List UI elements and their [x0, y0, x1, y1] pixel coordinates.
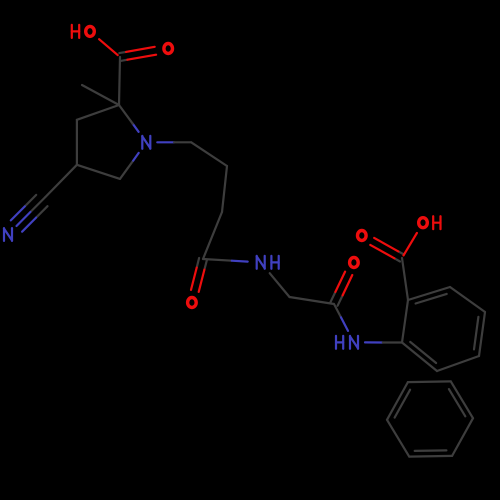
- bond C2-C3 (pyrrolidine): [77, 105, 119, 120]
- double bond C=O amide 2: [330, 272, 352, 306]
- bond C4-nitrile carbon: [45, 165, 77, 197]
- benzene inner double-bond line 2: [474, 317, 478, 350]
- bond C2-carboxyl carbon: [119, 57, 120, 105]
- bond C-OH carboxylic acid 1: [99, 39, 118, 55]
- label O amide 1: [188, 298, 197, 308]
- bond N1-CH2 chain: [157, 141, 191, 143]
- bond NH-CH2 glycine: [270, 273, 290, 297]
- benzene component inner line 2: [415, 449, 447, 452]
- benzene ring edge 2: [408, 287, 450, 300]
- label N nitrile: [4, 228, 12, 241]
- bond CH2-C amide 2: [290, 297, 335, 304]
- benzene inner double-bond line 1: [416, 294, 447, 304]
- double bond C=O amide 1: [191, 258, 207, 292]
- benzene ring edge 3: [450, 287, 485, 312]
- double bond C=O carboxylic acid 1: [119, 47, 156, 61]
- bond chain: [222, 166, 227, 212]
- bond C4-C5 (pyrrolidine): [77, 165, 120, 179]
- benzene ring edge 4: [479, 312, 485, 356]
- bond N-phenyl: [365, 341, 402, 343]
- label O carbonyl acid 1: [164, 44, 173, 54]
- bond chain to amide 1 carbon: [203, 212, 222, 259]
- benzene component edge 6: [408, 380, 451, 383]
- benzene ring edge 5: [437, 356, 479, 371]
- bond C-N amide 2: [334, 304, 348, 331]
- benzene ring edge 6: [402, 343, 437, 372]
- label H of OH acid 2: [433, 216, 440, 229]
- bond phenyl-carboxyl carbon 2: [402, 258, 408, 300]
- benzene component inner line 1: [449, 389, 465, 416]
- label O carbonyl acid 2: [358, 231, 367, 241]
- benzene component edge 4: [387, 420, 409, 457]
- bond C2-methyl: [82, 85, 119, 105]
- benzene inner double-bond line 3: [410, 342, 436, 363]
- bond N1-C2 (pyrrolidine): [119, 105, 139, 132]
- bond CH2-CH2 chain: [191, 142, 227, 166]
- benzene component edge 3: [409, 455, 452, 458]
- benzene component edge 1: [451, 381, 473, 418]
- label H amide 1: [271, 256, 278, 269]
- benzene component edge 2: [452, 418, 473, 456]
- label O amide 2: [350, 258, 359, 268]
- double bond C=O carboxylic acid 2: [370, 238, 404, 262]
- label O of OH acid 2: [419, 218, 428, 228]
- label N amide 2: [350, 336, 358, 349]
- benzene component edge 5: [387, 382, 408, 420]
- bond C-N amide 1: [203, 259, 248, 262]
- bond C3-C4 (pyrrolidine): [76, 120, 78, 165]
- bond C5-N1 (pyrrolidine): [120, 153, 139, 179]
- benzene component inner line 3: [395, 390, 411, 418]
- label N amide 1: [257, 256, 265, 269]
- bond C-OH carboxylic acid 2: [404, 233, 417, 255]
- label N pyrrolidine: [142, 136, 150, 149]
- label H amide 2: [336, 336, 343, 349]
- triple bond C#N nitrile: [11, 195, 48, 232]
- label O of HO acid 1: [86, 26, 95, 36]
- benzene ring edge 1: [402, 300, 408, 343]
- label H of HO acid 1: [72, 25, 79, 38]
